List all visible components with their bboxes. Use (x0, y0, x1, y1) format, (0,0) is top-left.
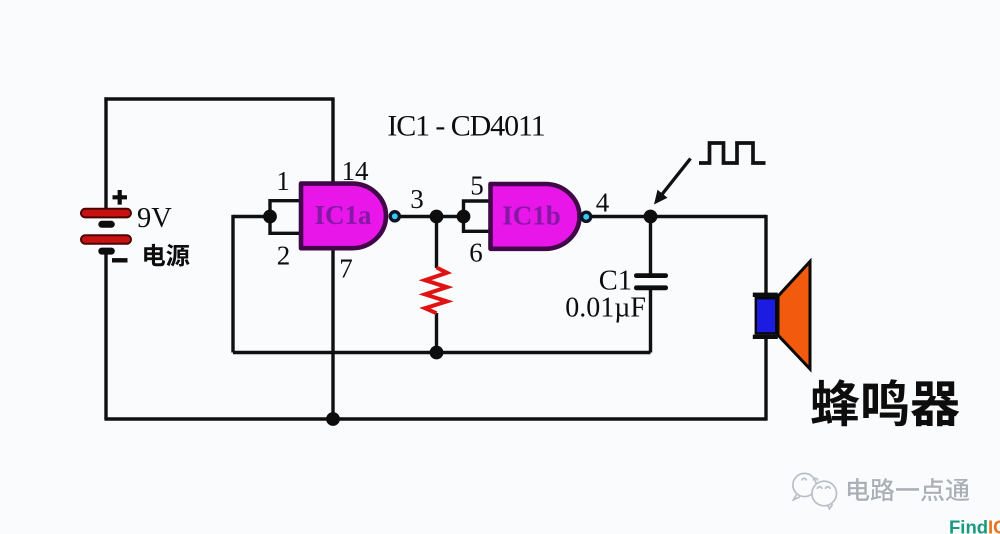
wire IC1b output to speaker branch (591, 215, 766, 218)
wire resistor to feedback rail (435, 313, 438, 353)
svg-text:3: 3 (410, 184, 424, 214)
wire bottom rail (104, 417, 766, 420)
label fengmingqi (buzzer) (811, 379, 859, 426)
NAND gate IC1a body (301, 184, 386, 249)
node IC1b input junction (457, 210, 471, 224)
wire speaker to bottom rail (764, 338, 767, 421)
watermark text dianlu yidiantong (848, 478, 869, 501)
wire IC1a output to IC1b input (399, 215, 464, 218)
svg-text:9V: 9V (137, 203, 172, 234)
resistor R1 (red zigzag) (425, 268, 447, 314)
wire top rail battery+ to pin14 (104, 97, 334, 100)
IC1a input bracket pins 1,2 (270, 201, 301, 234)
svg-text:4: 4 (596, 187, 610, 217)
svg-text:5: 5 (470, 171, 484, 201)
svg-text:IC1 - CD4011: IC1 - CD4011 (387, 110, 544, 143)
svg-text:7: 7 (339, 253, 353, 283)
speaker cone (orange) (778, 262, 810, 370)
IC1b output inversion bubble (582, 212, 591, 221)
watermark WeChat icon (793, 473, 837, 508)
wire node 4 down to capacitor (649, 217, 652, 274)
battery short negative plate 1 (98, 221, 115, 228)
wire left rail upper (battery + lead) (104, 97, 107, 209)
wire IC1a input node to feedback corner (233, 215, 270, 218)
speaker bottom frame bar (753, 335, 778, 339)
watermark text dianlu yidiantong (white emboss) (849, 480, 870, 503)
arrow to node 4 (662, 159, 691, 196)
label dianyuan (power supply) (144, 244, 165, 266)
wire pin 7 to bottom rail (331, 247, 334, 419)
wire right branch down to speaker (764, 215, 767, 293)
wire feedback left vertical (231, 215, 234, 353)
wire node 3 down to resistor (435, 217, 438, 269)
node IC1a input junction (263, 210, 277, 224)
battery 9V positive plate 2 (81, 235, 131, 244)
speaker top frame bar (753, 293, 778, 297)
svg-text:IC1b: IC1b (502, 200, 561, 230)
square wave symbol (699, 143, 766, 163)
wire capacitor lower lead (649, 290, 652, 353)
svg-text:14: 14 (342, 156, 370, 186)
svg-text:IC1a: IC1a (314, 200, 372, 230)
svg-text:2: 2 (277, 241, 291, 271)
node 3 junction (resistor top) (430, 210, 444, 224)
svg-text:6: 6 (469, 238, 483, 268)
wire feedback bottom horizontal to capacitor (233, 351, 651, 354)
battery minus sign (112, 258, 128, 262)
NAND gate IC1b body (491, 184, 580, 249)
node pin7/bottom-rail junction (326, 412, 340, 426)
battery 9V positive plate (81, 209, 131, 218)
battery plus sign (113, 190, 128, 205)
svg-text:0.01µF: 0.01µF (565, 293, 646, 324)
svg-text:1: 1 (276, 166, 290, 196)
node 4 junction (capacitor top) (644, 210, 658, 224)
speaker voice coil (blue) (756, 298, 776, 333)
wire pin 14 to top rail (331, 99, 334, 184)
capacitor C1 bottom plate (634, 285, 668, 290)
IC1a output inversion bubble (390, 212, 399, 221)
svg-text:FindIC: FindIC (949, 517, 1000, 534)
capacitor C1 top plate (634, 273, 668, 278)
wire left rail lower (battery - lead) (104, 254, 107, 419)
node resistor/feedback junction (430, 346, 444, 360)
battery short negative plate 2 (98, 248, 115, 255)
IC1b input bracket pins 5,6 (464, 201, 493, 231)
